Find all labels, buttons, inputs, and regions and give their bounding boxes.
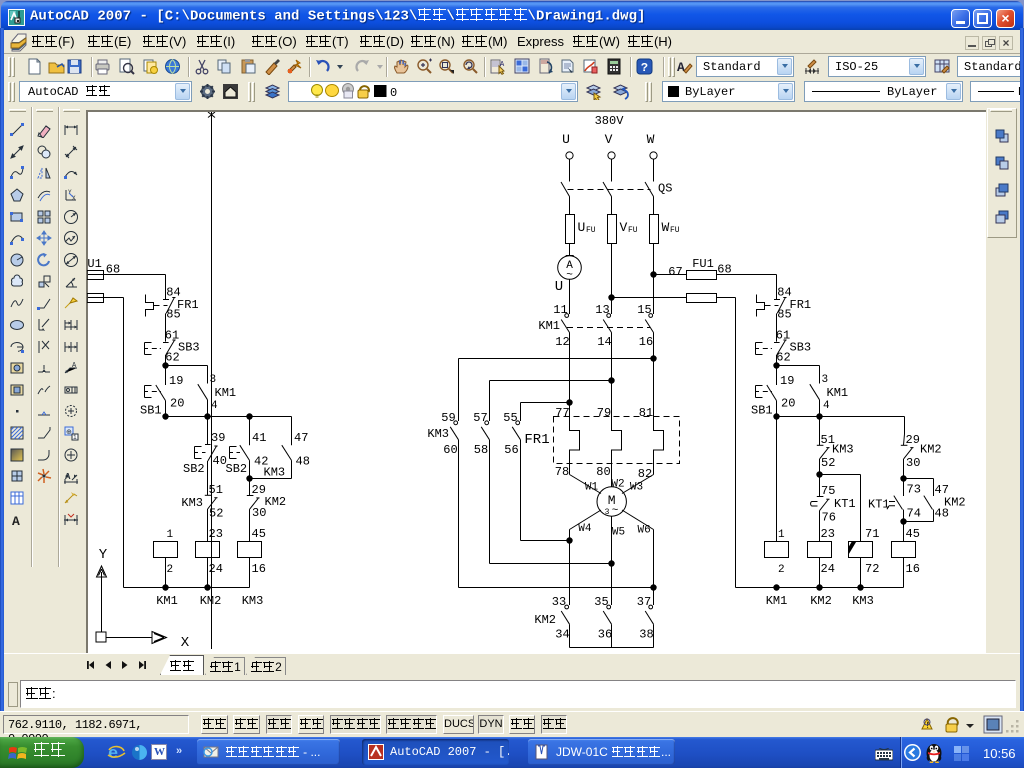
node bus-SB2 (left) [246, 413, 252, 419]
contactor KM3 aux NC 51-52 (left) [181, 483, 223, 541]
wire V node to fuse FU1b right [612, 297, 687, 299]
svg-text:FR1: FR1 [790, 298, 812, 312]
svg-text:W4: W4 [578, 523, 592, 535]
node busbot-KM2 (right) [816, 584, 822, 590]
svg-text:48: 48 [296, 455, 310, 469]
svg-text:SB3: SB3 [790, 341, 812, 355]
svg-text:A: A [12, 514, 20, 528]
node V-bypass [608, 377, 614, 383]
contactor KM3 main contacts 59-60 57-58 55-56 [427, 411, 520, 457]
node 30 (right) [900, 475, 906, 481]
wire motor W5 down [611, 516, 613, 605]
svg-text:24: 24 [821, 562, 835, 576]
control bus left [166, 416, 292, 418]
motor terminal label W4 [578, 523, 592, 535]
svg-text:33: 33 [552, 595, 566, 609]
node W6-KM3 [650, 584, 656, 590]
svg-text:SB2: SB2 [226, 462, 248, 476]
svg-text:82: 82 [638, 467, 652, 481]
wire heater 82 to motor W3 [622, 464, 654, 494]
wire W terminal to QS [653, 159, 655, 181]
construction line (long vertical) [208, 112, 215, 649]
svg-text:79: 79 [597, 406, 611, 420]
svg-text:30: 30 [252, 506, 266, 520]
node SB3-62 (left) [162, 362, 168, 368]
wire QS to fuse UFU [569, 197, 571, 215]
node bus-KM1aux (right) [816, 413, 822, 419]
svg-text:36: 36 [598, 628, 612, 642]
node 42-47 (left) [246, 475, 252, 481]
svg-text:KM1: KM1 [827, 386, 849, 400]
svg-text:45: 45 [906, 527, 920, 541]
svg-text:KT1: KT1 [868, 498, 890, 512]
disconnect switch QS [561, 182, 672, 197]
wire QS to fuse WFU [653, 197, 655, 215]
svg-text:X: X [181, 635, 190, 651]
svg-text:62: 62 [776, 351, 790, 365]
svg-text:34: 34 [555, 628, 569, 642]
coil KT1 71-72 [848, 541, 872, 557]
wire W node to fuse FU1a right [654, 274, 687, 276]
svg-text:1: 1 [167, 529, 174, 541]
svg-text:51: 51 [209, 483, 223, 497]
time relay KT1 delayed contact 75-76 (right) [811, 475, 856, 542]
contactor KM3 aux NC 51-52 (right) [817, 417, 854, 475]
svg-text:76: 76 [822, 511, 836, 525]
svg-text:52: 52 [209, 507, 223, 521]
wire bypass V to KM3 57 [490, 381, 612, 422]
svg-text:SB3: SB3 [178, 341, 200, 355]
svg-text:57: 57 [473, 411, 487, 425]
svg-text:73: 73 [907, 483, 921, 497]
node V-FU1 [608, 294, 614, 300]
svg-text:61: 61 [776, 329, 790, 343]
terminal U [566, 152, 573, 159]
pushbutton SB1 NO 19-20 (right) [751, 366, 795, 418]
node W5-KM3 [608, 560, 614, 566]
fuse FU1 left lower [87, 294, 104, 303]
wire FU1a left to FR1 [88, 275, 166, 289]
wire 12 down to heater 77 [569, 333, 571, 417]
svg-text:KM2: KM2 [920, 443, 942, 457]
terminal W [650, 152, 657, 159]
wire coil KM2 to bus (left) [207, 558, 209, 588]
node busbot-KT1 (right) [857, 584, 863, 590]
svg-text:SB1: SB1 [751, 404, 773, 418]
node 74 (right) [900, 518, 906, 524]
svg-text:~: ~ [612, 505, 619, 517]
wire VFU down to contact 13 [611, 244, 613, 315]
coil label KM2 (right) [810, 594, 832, 608]
node bus-KM1aux (left) [204, 413, 210, 419]
svg-text:KM3: KM3 [181, 496, 203, 510]
svg-text:81: 81 [639, 406, 653, 420]
svg-text:45: 45 [252, 527, 266, 541]
wire star bar [570, 624, 654, 647]
blue window borders [0, 28, 4, 737]
svg-text:1: 1 [73, 434, 77, 441]
wire coil KM1 to bus (left) [165, 558, 167, 588]
wire coil KM3 to bus (left) [249, 558, 251, 588]
svg-text:23: 23 [209, 527, 223, 541]
svg-text:29: 29 [906, 433, 920, 447]
svg-text:4: 4 [823, 400, 830, 412]
layout tabs row [4, 653, 1020, 675]
svg-text:41: 41 [252, 431, 266, 445]
svg-text:KM2: KM2 [265, 495, 287, 509]
label 72 (right) [865, 562, 879, 576]
coil KM1 1-2 (left) [154, 542, 178, 558]
ammeter PA [555, 256, 582, 296]
phase label V [605, 132, 613, 147]
svg-text:23: 23 [821, 527, 835, 541]
net label 380V [595, 114, 625, 128]
thermal relay FR1 NC contact 84-85 (right) [757, 286, 812, 342]
svg-text:⊕: ⊕ [66, 429, 72, 437]
svg-text:71: 71 [865, 527, 879, 541]
wire UFU to ammeter [569, 244, 571, 256]
motor terminal label W6 [637, 525, 650, 537]
svg-text:W5: W5 [612, 527, 625, 539]
status bar [0, 711, 1024, 737]
svg-text:QS: QS [658, 182, 672, 196]
terminal V [608, 152, 615, 159]
phase label U [562, 132, 570, 147]
wire WFU down to contact 15 [653, 244, 655, 315]
wire fuse FU1a to FR1 right [717, 275, 777, 289]
pushbutton SB1 NO 19-20 (left) [140, 366, 184, 418]
svg-text:20: 20 [170, 397, 184, 411]
label 23 (left) [209, 527, 223, 541]
phase label W [647, 132, 655, 147]
wire motor W4 down [570, 510, 602, 605]
label 71 (right) [865, 527, 879, 541]
svg-text:380V: 380V [595, 114, 625, 128]
contactor KM1 aux NO 3-4 (left) [198, 374, 236, 417]
node 52 (right) [816, 471, 822, 477]
svg-text:KM3: KM3 [852, 594, 874, 608]
node SB3-62 (right) [773, 362, 779, 368]
label 1 (left) [167, 529, 174, 541]
svg-text:KM3: KM3 [832, 443, 854, 457]
label 23 (right) [821, 527, 835, 541]
fuse FU1 right lower [687, 294, 717, 303]
wire KM3 56 to node W6 [521, 440, 570, 541]
wire bypass W to KM3 59 [459, 359, 654, 422]
wire fuse FU1b down to bus [717, 298, 736, 588]
wire node62 to KM1 aux (right) [777, 366, 820, 384]
svg-text:A: A [500, 61, 505, 69]
label 45 (right) [904, 522, 920, 542]
right toolbar panel [985, 107, 1019, 655]
wire node52 to KT1 coil [820, 475, 861, 542]
svg-text:15: 15 [637, 303, 651, 317]
svg-text:16: 16 [639, 335, 653, 349]
svg-text:A: A [72, 362, 77, 370]
svg-text:16: 16 [252, 562, 266, 576]
label 45 (left) [252, 527, 266, 541]
svg-text:12: 12 [555, 335, 569, 349]
svg-text:78: 78 [555, 465, 569, 479]
contactor KM2 aux NC 29-30 (left) [247, 479, 286, 542]
coil KM3 45-16 (right) [892, 542, 916, 558]
node bus-SB1 (right) [773, 413, 779, 419]
pushbutton SB2 NO 41-42 (left) [226, 417, 269, 479]
wire KM3 60 to node W4 [459, 440, 654, 588]
contactor KM2 star contacts 33-34 35-36 37-38 [534, 595, 653, 642]
wire bypass U to KM3 55 [521, 403, 570, 422]
wire U terminal to QS [569, 159, 571, 181]
contactor KM2 aux NO 47-48 (right) [904, 479, 966, 522]
svg-text:3: 3 [210, 374, 217, 386]
taskbar [0, 737, 1024, 768]
wire KM3 58 to node W5 [490, 440, 612, 564]
svg-text:3: 3 [822, 374, 829, 386]
label 16 (right) [906, 562, 920, 576]
svg-text:14: 14 [597, 335, 611, 349]
svg-text:U: U [562, 132, 570, 147]
svg-text:?: ? [641, 61, 648, 75]
svg-text:19: 19 [169, 374, 183, 388]
contactor KM3 aux NO 47-48 (left) [250, 417, 310, 480]
svg-text:KM1: KM1 [538, 319, 560, 333]
fuse WFU [650, 215, 680, 244]
label 24 (left) [209, 562, 223, 576]
svg-text:52: 52 [821, 456, 835, 470]
motor terminal label W5 [612, 527, 625, 539]
svg-text:2: 2 [778, 564, 785, 576]
svg-text:3: 3 [605, 508, 610, 517]
svg-text:W: W [662, 220, 670, 235]
svg-text:75: 75 [821, 484, 835, 498]
bottom bus left [124, 587, 250, 589]
bottom bus right [736, 587, 904, 589]
motor terminal label W2 [611, 479, 624, 491]
svg-text:80: 80 [596, 465, 610, 479]
svg-text:FU: FU [586, 226, 596, 235]
contactor KM1 main contacts 11-12 13-14 15-16 [538, 303, 653, 349]
pushbutton SB3 NC contact 61-62 (left) [145, 329, 200, 366]
svg-text:KM3: KM3 [264, 466, 286, 480]
svg-text:24: 24 [209, 562, 223, 576]
svg-text:A: A [677, 60, 685, 75]
title bar [1, 1, 1023, 30]
svg-text:KM1: KM1 [156, 594, 178, 608]
command window [4, 675, 1020, 711]
thermal relay FR1 heater elements 77-78 79-80 81-82 [524, 406, 679, 481]
svg-text:13: 13 [595, 303, 609, 317]
svg-text:U: U [555, 279, 563, 295]
node bus-SB1 (left) [162, 413, 168, 419]
coil label KM1 (right) [766, 594, 788, 608]
svg-text:48: 48 [935, 507, 949, 521]
svg-text:SB2: SB2 [183, 462, 205, 476]
node busbot-KM1 (left) [162, 584, 168, 590]
time relay KT1 instant NO 73-74 [868, 479, 921, 522]
wire 14 down to heater 79 [611, 333, 613, 417]
node W-bypass [650, 355, 656, 361]
svg-text:62: 62 [165, 351, 179, 365]
svg-text:SB1: SB1 [140, 404, 162, 418]
svg-text:FU: FU [670, 226, 680, 235]
svg-text:FU: FU [628, 226, 638, 235]
drawing canvas [86, 110, 986, 653]
node W4-KM3 [566, 537, 572, 543]
wire coil KM2 to bus (right) [819, 558, 821, 588]
svg-text:4: 4 [211, 400, 218, 412]
svg-text:19: 19 [780, 374, 794, 388]
toolbar row 2 [0, 78, 1020, 107]
svg-text:39: 39 [211, 431, 225, 445]
svg-text:20: 20 [781, 397, 795, 411]
motor M 3-phase [597, 487, 626, 517]
label 2 (left) [167, 564, 174, 576]
schematic svg [87, 112, 985, 652]
svg-text:56: 56 [504, 443, 518, 457]
svg-text:FU1: FU1 [692, 257, 714, 271]
node busbot-KM1 (right) [773, 584, 779, 590]
svg-text:KM2: KM2 [534, 613, 556, 627]
svg-text:74: 74 [907, 507, 921, 521]
svg-text:2: 2 [167, 564, 174, 576]
svg-text:16: 16 [906, 562, 920, 576]
pushbutton SB3 NC contact 61-62 (right) [756, 329, 812, 366]
svg-text:FU1: FU1 [87, 257, 102, 271]
coil label KM3 (right) [852, 594, 874, 608]
wire coil KM3 to bus (right) [903, 558, 905, 588]
coil label KM1 (left) [156, 594, 178, 608]
coil KM3 45-16 (left) [238, 542, 262, 558]
svg-text:V: V [620, 220, 628, 235]
svg-text:30: 30 [906, 456, 920, 470]
svg-text:KM1: KM1 [215, 386, 237, 400]
pushbutton SB2 NC 39-40 (left) [183, 417, 227, 496]
svg-text:72: 72 [865, 562, 879, 576]
svg-text:11: 11 [553, 303, 567, 317]
svg-text:77: 77 [555, 406, 569, 420]
contactor KM2 aux NC 29-30 (right) [901, 417, 942, 479]
svg-text:38: 38 [639, 628, 653, 642]
svg-text:67: 67 [668, 265, 682, 279]
svg-text:47: 47 [294, 431, 308, 445]
node busbot-KM2 (left) [204, 584, 210, 590]
label 16 (left) [252, 562, 266, 576]
coil label KM3 (left) [242, 594, 264, 608]
svg-text:V: V [605, 132, 613, 147]
wire bus to KM1 coil (right) [776, 417, 778, 542]
svg-text:KT1: KT1 [834, 497, 856, 511]
svg-text:W1: W1 [585, 482, 599, 494]
svg-text:KM3: KM3 [242, 594, 264, 608]
wire coil KT1 to bus [860, 558, 862, 588]
coil KM2 23-24 (right) [808, 542, 832, 558]
label 67 [668, 265, 682, 279]
svg-text:U: U [578, 220, 586, 235]
label 1 (right) [778, 529, 785, 541]
wire ammeter to contact 11 [569, 279, 571, 314]
label 24 (right) [821, 562, 835, 576]
UCS icon [96, 547, 190, 651]
label 2 (right) [778, 564, 785, 576]
svg-text:Y: Y [99, 547, 108, 563]
svg-text:58: 58 [474, 443, 488, 457]
wire FU1b left down to bus [88, 298, 124, 588]
wire node62 to KM1 aux (left) [166, 366, 208, 384]
wire heater 80 to motor W2 [611, 464, 613, 487]
wire heater 78 to motor W1 [570, 464, 602, 494]
node U-bypass [566, 399, 572, 405]
svg-text:1: 1 [778, 529, 785, 541]
wire QS to fuse VFU [611, 197, 613, 215]
coil KM1 1-2 (right) [765, 542, 789, 558]
toolbar row 1 [0, 54, 1020, 80]
fuse FU1 left upper [80, 257, 120, 280]
motor terminal label W3 [630, 482, 643, 494]
wire 16 down to heater 81 [653, 333, 655, 417]
wire motor W6 down [622, 510, 654, 605]
svg-text:85: 85 [166, 308, 180, 322]
coil KM2 23-24 (left) [196, 542, 220, 558]
fuse UFU [566, 215, 596, 244]
left toolbar panel [4, 107, 87, 655]
svg-text:60: 60 [443, 443, 457, 457]
svg-text:85: 85 [777, 308, 791, 322]
motor terminal label W1 [585, 482, 599, 494]
contactor KM1 aux NO 3-4 (right) [810, 374, 848, 417]
svg-text:KM3: KM3 [427, 427, 449, 441]
svg-text:W: W [647, 132, 655, 147]
svg-text:KM2: KM2 [200, 594, 222, 608]
fuse VFU [608, 215, 638, 244]
control bus right [777, 416, 905, 418]
coil label KM2 (left) [200, 594, 222, 608]
wire V terminal to QS [611, 159, 613, 181]
thermal relay FR1 NC contact 84-85 (left) [146, 286, 199, 342]
fuse FU1 right upper [687, 257, 732, 280]
node W-FU1 [650, 271, 656, 277]
menu bar [0, 30, 1020, 54]
svg-text:KM1: KM1 [766, 594, 788, 608]
svg-text:FR1: FR1 [524, 432, 549, 448]
svg-text:W3: W3 [630, 482, 643, 494]
svg-text:KM2: KM2 [810, 594, 832, 608]
